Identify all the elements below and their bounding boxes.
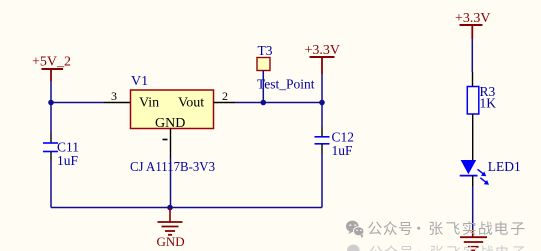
wire T3 down to node [262, 71, 264, 103]
wire +5V_2 to node A [50, 81, 52, 103]
testpoint T3 pad [257, 58, 270, 71]
svg-text:V1: V1 [131, 74, 148, 89]
V1 hidden-pin marker dash [163, 139, 168, 141]
R3 top pin lead [472, 72, 474, 87]
svg-text:+3.3V: +3.3V [455, 11, 491, 26]
watermark WeChat icon eyes [349, 224, 362, 231]
capacitor C11 [43, 133, 58, 161]
junction at ground node [167, 205, 173, 211]
wire V1 GND pin to bottom rail [170, 158, 172, 208]
resistor R3 [467, 87, 479, 115]
svg-text:2: 2 [222, 89, 228, 103]
capacitor C12 [315, 127, 330, 153]
svg-text:3: 3 [111, 89, 117, 103]
node A junction [48, 100, 54, 106]
wire +3.3V to R3 [471, 39, 473, 72]
LED1 cathode lead [472, 176, 474, 186]
svg-text:+5V_2: +5V_2 [32, 55, 71, 70]
svg-text:+3.3V: +3.3V [305, 43, 341, 58]
power symbol +3.3V (middle) [305, 43, 341, 74]
watermark WeChat icon line 2 (clipped) [347, 245, 365, 251]
wire V1 pin 2 to +3.3V node [235, 102, 322, 104]
svg-text:GND: GND [157, 234, 185, 249]
svg-text:Vout: Vout [178, 96, 204, 111]
watermark text line 1 [368, 221, 524, 235]
wire C11 to bottom rail [50, 161, 52, 208]
watermark WeChat icon [346, 221, 364, 239]
svg-text:1uF: 1uF [57, 153, 79, 168]
svg-text:Test_Point: Test_Point [257, 77, 315, 92]
power symbol +5V_2 [32, 55, 71, 82]
wire C12 to bottom rail [321, 153, 323, 208]
svg-text:1K: 1K [480, 96, 497, 111]
wire LED1 to ground [472, 186, 474, 230]
ground symbol GND [158, 208, 183, 235]
wire R3 to LED1 [472, 114, 474, 161]
junction at T3 node [261, 100, 267, 106]
pin 2 lead of V1 [214, 102, 236, 104]
regulator V1 body [131, 90, 214, 129]
ground symbol (right) [460, 230, 487, 251]
power symbol +3.3V (right) [455, 11, 491, 39]
svg-text:1uF: 1uF [332, 143, 354, 158]
watermark text line 2 (clipped) [369, 245, 525, 251]
wire +3.3V node down to C12 [321, 103, 323, 128]
junction at +3.3V node [319, 100, 325, 106]
wire +3.3V symbol to node [321, 74, 323, 103]
V1 GND pin lead [170, 129, 172, 159]
wire node A to V1 pin 3 [51, 102, 104, 104]
svg-text:LED1: LED1 [488, 159, 521, 174]
wire node A down to C11 [50, 103, 52, 134]
pin 3 lead of V1 [104, 102, 131, 104]
svg-text:CJ A1117B-3V3: CJ A1117B-3V3 [130, 159, 215, 174]
LED LED1 [460, 160, 489, 185]
svg-text:Vin: Vin [139, 96, 159, 111]
wire bottom ground rail [51, 207, 322, 209]
svg-text:T3: T3 [258, 43, 273, 58]
